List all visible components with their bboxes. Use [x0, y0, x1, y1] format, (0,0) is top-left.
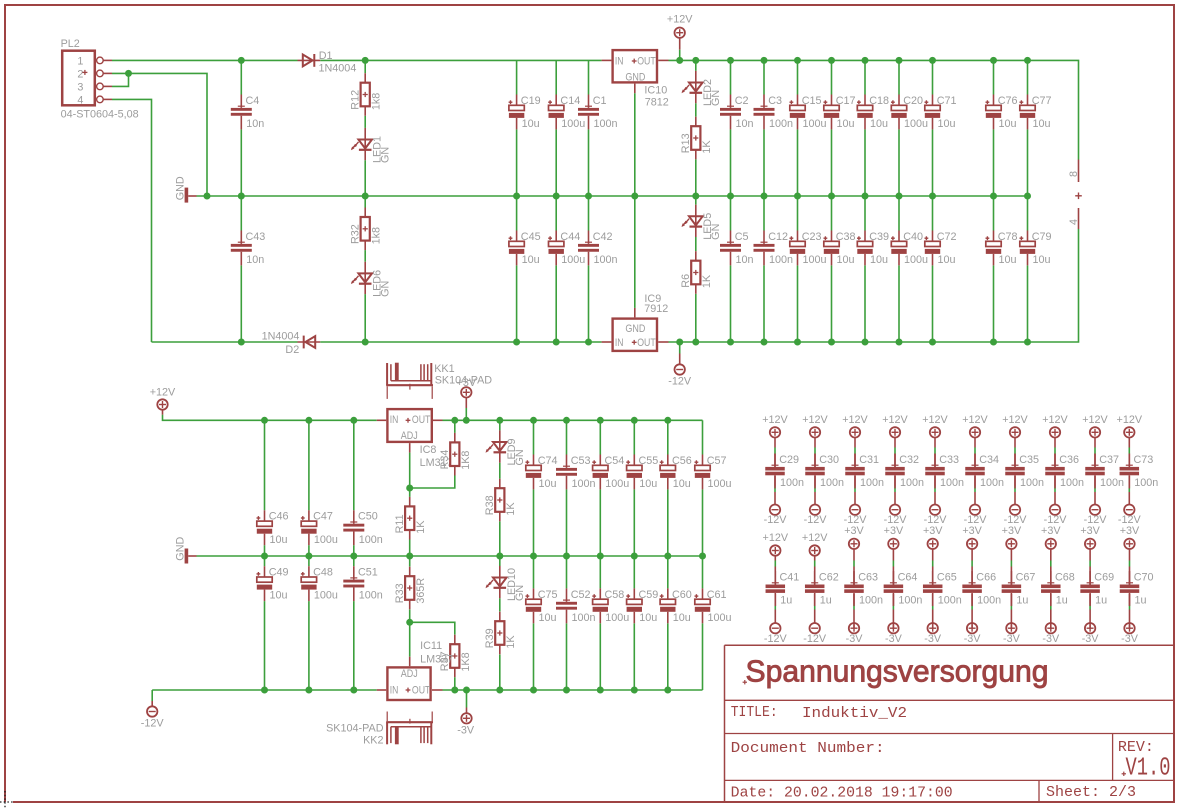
- junction: [727, 57, 734, 64]
- svg-text:R38: R38: [484, 495, 496, 515]
- supply +3V C68: [1046, 539, 1056, 549]
- junction: [929, 57, 936, 64]
- junction: [664, 687, 671, 694]
- capacitor C14: [555, 95, 557, 106]
- svg-text:100n: 100n: [359, 590, 383, 602]
- junction: [794, 193, 801, 200]
- svg-text:+12V: +12V: [1117, 414, 1143, 426]
- wire R33 column: [409, 556, 411, 567]
- svg-text:C48: C48: [313, 567, 333, 579]
- connector PL2: [62, 51, 95, 106]
- svg-text:C41: C41: [780, 572, 800, 584]
- supply -3V: [461, 713, 471, 723]
- svg-text:C34: C34: [979, 454, 999, 466]
- supply +12V C62: [810, 545, 820, 555]
- junction: [761, 339, 768, 346]
- svg-text:1K: 1K: [701, 140, 713, 154]
- junction: [553, 193, 560, 200]
- svg-text:C1: C1: [593, 95, 607, 107]
- capacitor C49: [264, 566, 266, 577]
- svg-text:100n: 100n: [359, 534, 383, 546]
- svg-text:C57: C57: [707, 455, 727, 467]
- svg-text:C36: C36: [1059, 454, 1079, 466]
- wire C65 column: [932, 549, 934, 561]
- svg-text:10u: 10u: [539, 478, 557, 490]
- wire R37 bottom: [454, 677, 456, 690]
- capacitor C48: [308, 566, 310, 577]
- diode D2: [298, 341, 321, 343]
- resistor R11: [409, 497, 411, 507]
- svg-text:+12V: +12V: [763, 532, 789, 544]
- supply +12V C31: [850, 427, 860, 437]
- supply -3V C69: [1089, 623, 1091, 628]
- svg-text:10u: 10u: [1033, 254, 1051, 266]
- wire C79 column: [1027, 196, 1029, 231]
- svg-text:-3V: -3V: [846, 633, 864, 645]
- capacitor C5: [730, 231, 732, 244]
- svg-text:+12V: +12V: [762, 414, 788, 426]
- svg-text:-12V: -12V: [804, 514, 828, 526]
- junction: [585, 339, 592, 346]
- svg-text:C32: C32: [899, 454, 919, 466]
- junction: [585, 193, 592, 200]
- supply -3V C65: [932, 623, 934, 628]
- svg-text:Date: 20.02.2018 19:17:00: Date: 20.02.2018 19:17:00: [731, 786, 953, 802]
- capacitor C31: [854, 454, 856, 467]
- svg-text:100u: 100u: [314, 590, 338, 602]
- svg-text:Spannungsversorgung: Spannungsversorgung: [746, 655, 1049, 689]
- supply -12V C30: [810, 505, 820, 515]
- junction: [451, 687, 458, 694]
- supply -12V C36: [1050, 505, 1060, 515]
- junction: [727, 339, 734, 346]
- wire C51 column: [353, 556, 355, 566]
- svg-text:+12V: +12V: [150, 386, 176, 398]
- svg-text:GND: GND: [625, 71, 645, 83]
- svg-text:-3V: -3V: [1082, 633, 1100, 645]
- junction: [761, 57, 768, 64]
- voltage regulator IC8 LM317: [387, 409, 431, 442]
- capacitor C43: [240, 231, 242, 244]
- junction: [631, 193, 638, 200]
- junction: [631, 687, 638, 694]
- wire +12V rail lower: [163, 415, 377, 421]
- svg-text:C30: C30: [819, 454, 839, 466]
- svg-text:GN: GN: [514, 449, 526, 465]
- supply -12V C33: [930, 505, 940, 515]
- supply -12V C73: [1124, 505, 1134, 515]
- svg-text:10u: 10u: [837, 118, 855, 130]
- svg-text:C51: C51: [358, 567, 378, 579]
- svg-text:C37: C37: [1099, 454, 1119, 466]
- wire +3V rail: [443, 419, 703, 421]
- svg-text:100n: 100n: [572, 478, 596, 490]
- wire C71 column: [932, 60, 934, 94]
- capacitor C4: [240, 95, 242, 108]
- svg-text:+12V: +12V: [962, 414, 988, 426]
- wire C40 column: [898, 196, 900, 231]
- svg-text:C73: C73: [1134, 454, 1154, 466]
- svg-text:C3: C3: [768, 95, 782, 107]
- wire C15 column: [797, 60, 799, 94]
- capacitor C33: [934, 454, 936, 467]
- capacitor C18: [864, 95, 866, 106]
- svg-text:-12V: -12V: [141, 718, 165, 730]
- svg-text:C19: C19: [521, 95, 541, 107]
- wire C64 column: [892, 549, 894, 561]
- wire C66 column: [971, 549, 973, 561]
- svg-text:10u: 10u: [999, 254, 1017, 266]
- supply -3V C63: [853, 623, 855, 628]
- wire C54 column: [599, 420, 601, 454]
- junction: [761, 193, 768, 200]
- capacitor C71: [932, 95, 934, 106]
- svg-text:IN: IN: [615, 337, 624, 349]
- capacitor C23: [797, 231, 799, 242]
- junction: [513, 339, 520, 346]
- svg-text:C61: C61: [707, 589, 727, 601]
- svg-text:R32: R32: [350, 224, 362, 244]
- svg-text:+12V: +12V: [882, 414, 908, 426]
- svg-text:OUT: OUT: [637, 55, 656, 67]
- capacitor C52: [566, 588, 568, 601]
- junction: [362, 57, 369, 64]
- capacitor C67: [1010, 571, 1012, 584]
- supply -3V C67: [1010, 623, 1012, 628]
- junction: [862, 339, 869, 346]
- supply -12V C41: [770, 623, 780, 633]
- svg-text:+3V: +3V: [962, 525, 982, 537]
- svg-text:C47: C47: [313, 511, 333, 523]
- supply -3V C64: [892, 623, 894, 628]
- wire IC9 GND pin: [634, 196, 636, 308]
- capacitor C68: [1050, 571, 1052, 584]
- svg-text:C78: C78: [998, 231, 1018, 243]
- supply +3V C64: [888, 539, 898, 549]
- capacitor C74: [533, 455, 535, 466]
- svg-text:100u: 100u: [708, 478, 732, 490]
- junction: [676, 339, 683, 346]
- wire C45 column: [516, 196, 518, 231]
- LED LED5: [695, 205, 697, 237]
- supply +12V C32: [890, 427, 900, 437]
- capacitor C76: [993, 95, 995, 106]
- svg-text:04-ST0604-5,08: 04-ST0604-5,08: [61, 108, 139, 120]
- svg-text:C74: C74: [538, 455, 558, 467]
- svg-text:+12V: +12V: [802, 532, 828, 544]
- svg-text:4: 4: [1068, 219, 1080, 225]
- svg-text:10n: 10n: [736, 118, 754, 130]
- svg-text:Induktiv_V2: Induktiv_V2: [802, 706, 907, 722]
- svg-text:GN: GN: [710, 224, 722, 240]
- svg-text:GN: GN: [710, 90, 722, 106]
- junction: [496, 553, 503, 560]
- svg-text:7812: 7812: [645, 96, 669, 108]
- LED LED10: [499, 566, 501, 598]
- resistor R6: [695, 251, 697, 261]
- junction: [1024, 339, 1031, 346]
- junction: [828, 193, 835, 200]
- junction: [563, 417, 570, 424]
- svg-text:1u: 1u: [780, 595, 792, 607]
- junction: [828, 57, 835, 64]
- junction: [238, 339, 245, 346]
- resistor R32: [364, 208, 366, 218]
- wire C2 column: [730, 60, 732, 94]
- junction: [631, 553, 638, 560]
- wire C63 column: [853, 549, 855, 561]
- svg-text:+3V: +3V: [457, 377, 477, 389]
- capacitor C19: [516, 95, 518, 106]
- svg-text:1k8: 1k8: [371, 93, 383, 110]
- svg-text:C35: C35: [1019, 454, 1039, 466]
- svg-text:C43: C43: [246, 231, 266, 243]
- resistor R12: [364, 73, 366, 83]
- supply -3V C68: [1050, 623, 1052, 628]
- wire C60 column: [667, 556, 669, 588]
- svg-text:10u: 10u: [938, 254, 956, 266]
- junction: [496, 417, 503, 424]
- wire C70 column: [1129, 549, 1131, 561]
- svg-text:100n: 100n: [769, 118, 793, 130]
- svg-text:10u: 10u: [837, 254, 855, 266]
- svg-text:C63: C63: [858, 572, 878, 584]
- svg-text:100n: 100n: [594, 118, 618, 130]
- svg-text:PL2: PL2: [61, 38, 80, 50]
- capacitor C15: [797, 95, 799, 106]
- supply +3V C70: [1124, 539, 1134, 549]
- svg-text:V1.0: V1.0: [1126, 753, 1171, 783]
- junction: [406, 485, 413, 492]
- svg-text:OUT: OUT: [637, 337, 656, 349]
- svg-text:C75: C75: [538, 589, 558, 601]
- junction: [631, 417, 638, 424]
- svg-text:-3V: -3V: [885, 633, 903, 645]
- capacitor C54: [599, 455, 601, 466]
- svg-text:C17: C17: [836, 95, 856, 107]
- junction: [350, 553, 357, 560]
- svg-text:1K8: 1K8: [460, 652, 472, 671]
- svg-text:100u: 100u: [605, 478, 629, 490]
- wire C59 column: [633, 556, 635, 588]
- svg-text:100u: 100u: [561, 118, 585, 130]
- svg-text:1u: 1u: [820, 595, 832, 607]
- svg-text:+12V: +12V: [1082, 414, 1108, 426]
- svg-text:100n: 100n: [780, 477, 804, 489]
- IC power pins 8/4: [1078, 160, 1080, 183]
- svg-text:1K8: 1K8: [460, 451, 472, 470]
- junction: [463, 417, 470, 424]
- svg-text:1k8: 1k8: [371, 227, 383, 244]
- capacitor C61: [702, 588, 704, 599]
- junction: [929, 339, 936, 346]
- svg-text:1K: 1K: [505, 635, 517, 649]
- supply +12V C73: [1124, 427, 1134, 437]
- junction: [896, 193, 903, 200]
- wire LED5-R6 column: [695, 196, 697, 205]
- svg-text:+12V: +12V: [1002, 414, 1028, 426]
- svg-text:C12: C12: [768, 231, 788, 243]
- junction: [664, 553, 671, 560]
- svg-text:10u: 10u: [522, 118, 540, 130]
- capacitor C41: [774, 571, 776, 584]
- capacitor C45: [516, 231, 518, 242]
- supply -12V C32: [890, 505, 900, 515]
- capacitor C79: [1027, 231, 1029, 242]
- svg-text:+12V: +12V: [842, 414, 868, 426]
- svg-text:C58: C58: [605, 589, 625, 601]
- junction: [406, 619, 413, 626]
- junction: [362, 339, 369, 346]
- wire C74 column: [533, 420, 535, 454]
- svg-text:TITLE:: TITLE:: [731, 705, 778, 721]
- svg-text:C50: C50: [358, 511, 378, 523]
- svg-text:OUT: OUT: [412, 685, 431, 697]
- supply -12V C37: [1090, 505, 1100, 515]
- capacitor C40: [898, 231, 900, 242]
- svg-text:+3V: +3V: [844, 525, 864, 537]
- svg-text:1K: 1K: [505, 502, 517, 516]
- svg-text:10u: 10u: [673, 612, 691, 624]
- capacitor C70: [1129, 571, 1131, 584]
- wire C19 column: [516, 60, 518, 94]
- wire C35 column: [1014, 438, 1016, 448]
- wire C56 column: [667, 420, 669, 454]
- diode D1: [298, 59, 321, 61]
- svg-text:C79: C79: [1032, 231, 1052, 243]
- junction: [204, 193, 211, 200]
- svg-text:100n: 100n: [1020, 477, 1044, 489]
- resistor R33: [409, 567, 411, 577]
- wire C17 column: [831, 60, 833, 94]
- svg-text:100n: 100n: [940, 477, 964, 489]
- svg-text:C76: C76: [998, 95, 1018, 107]
- svg-text:C20: C20: [903, 95, 923, 107]
- wire C68 column: [1050, 549, 1052, 561]
- svg-text:100u: 100u: [803, 118, 827, 130]
- capacitor C63: [853, 571, 855, 584]
- capacitor C37: [1094, 454, 1096, 467]
- svg-text:C5: C5: [735, 231, 749, 243]
- wire R32-LED6 column: [364, 196, 366, 208]
- supply +12V C33: [930, 427, 940, 437]
- capacitor C73: [1128, 454, 1130, 467]
- svg-text:C65: C65: [937, 572, 957, 584]
- LED LED1: [364, 128, 366, 160]
- junction: [563, 553, 570, 560]
- svg-text:10u: 10u: [639, 612, 657, 624]
- capacitor C64: [892, 571, 894, 584]
- wire C61 column: [702, 556, 704, 588]
- capacitor C2: [730, 95, 732, 108]
- svg-text:100n: 100n: [572, 612, 596, 624]
- svg-text:100n: 100n: [938, 595, 962, 607]
- svg-text:100u: 100u: [904, 118, 928, 130]
- heatsink KK1 SK104-PAD: [386, 363, 388, 385]
- capacitor C3: [763, 95, 765, 108]
- supply +12V C41: [770, 545, 780, 555]
- capacitor C32: [894, 454, 896, 467]
- wire R34 top: [454, 420, 456, 433]
- svg-text:+3V: +3V: [923, 525, 943, 537]
- svg-text:D2: D2: [285, 344, 299, 356]
- junction: [238, 57, 245, 64]
- svg-text:C40: C40: [903, 231, 923, 243]
- wire pins 2-3 to GND: [112, 73, 129, 86]
- svg-text:1u: 1u: [1016, 595, 1028, 607]
- svg-text:IN: IN: [390, 414, 399, 426]
- svg-text:C59: C59: [639, 589, 659, 601]
- svg-text:C49: C49: [269, 567, 289, 579]
- wire C52 column: [566, 556, 568, 588]
- svg-text:GND: GND: [625, 323, 645, 335]
- junction: [727, 193, 734, 200]
- wire lower GND rail: [197, 555, 703, 557]
- svg-text:ADJ: ADJ: [401, 430, 418, 442]
- capacitor C46: [264, 510, 266, 521]
- capacitor C66: [971, 571, 973, 584]
- svg-text:C31: C31: [859, 454, 879, 466]
- svg-text:GND: GND: [174, 176, 186, 200]
- junction: [828, 339, 835, 346]
- svg-text:KK1: KK1: [434, 363, 454, 375]
- wire bottom rail right: [669, 229, 1079, 342]
- supply -3V C66: [971, 623, 973, 628]
- svg-text:C14: C14: [560, 95, 580, 107]
- capacitor C77: [1027, 95, 1029, 106]
- supply +12V C34: [970, 427, 980, 437]
- wire C50 column: [353, 420, 355, 510]
- svg-text:IN: IN: [615, 55, 624, 67]
- junction: [261, 687, 268, 694]
- svg-text:1N4004: 1N4004: [319, 62, 357, 74]
- svg-text:C54: C54: [605, 455, 625, 467]
- svg-text:365R: 365R: [415, 578, 427, 604]
- wire C20 column: [898, 60, 900, 94]
- svg-text:100n: 100n: [898, 595, 922, 607]
- junction: [597, 687, 604, 694]
- svg-text:+3V: +3V: [1080, 525, 1100, 537]
- capacitor C30: [814, 454, 816, 467]
- capacitor C60: [667, 588, 669, 599]
- capacitor C62: [814, 571, 816, 584]
- svg-text:C72: C72: [937, 231, 957, 243]
- svg-text:1K: 1K: [415, 520, 427, 534]
- junction: [794, 339, 801, 346]
- wire C36 column: [1054, 438, 1056, 448]
- ground GND lower: [185, 549, 189, 564]
- svg-text:10n: 10n: [246, 254, 264, 266]
- svg-text:10u: 10u: [539, 612, 557, 624]
- svg-text:100u: 100u: [803, 254, 827, 266]
- svg-text:10n: 10n: [246, 118, 264, 130]
- wire C34 column: [974, 438, 976, 448]
- svg-text:1u: 1u: [1095, 595, 1107, 607]
- wire C75 column: [533, 556, 535, 588]
- wire bottom rail mid: [320, 341, 601, 343]
- capacitor C51: [353, 566, 355, 579]
- svg-text:1u: 1u: [1056, 595, 1068, 607]
- junction: [1024, 193, 1031, 200]
- svg-text:100u: 100u: [561, 254, 585, 266]
- svg-text:10n: 10n: [736, 254, 754, 266]
- svg-text:8: 8: [1068, 171, 1080, 177]
- junction: [692, 193, 699, 200]
- wire C43 column: [240, 196, 242, 231]
- svg-text:-3V: -3V: [1121, 633, 1139, 645]
- junction: [451, 417, 458, 424]
- supply +3V: [461, 387, 471, 397]
